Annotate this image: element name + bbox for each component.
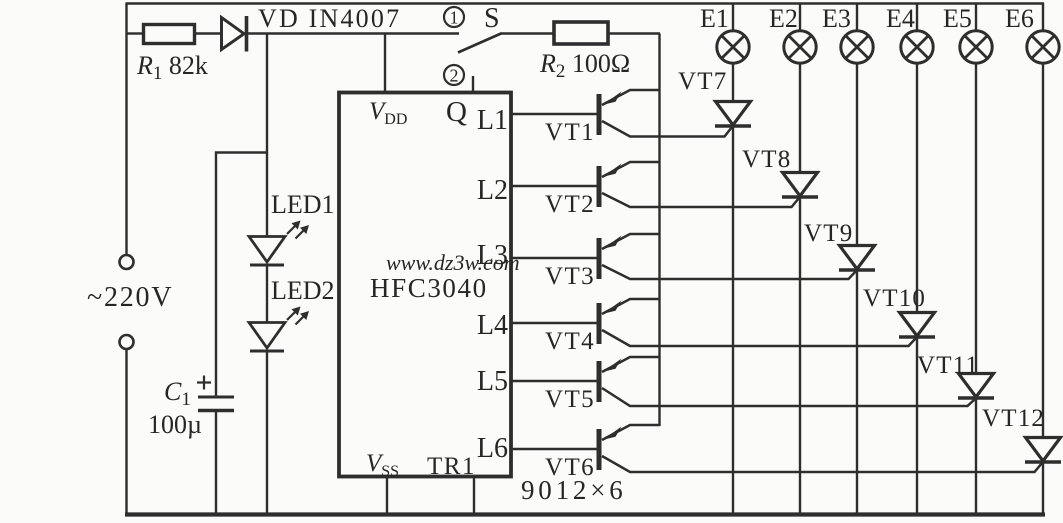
svg-text:VT10: VT10 [863, 285, 926, 312]
svg-text:2: 2 [450, 66, 459, 86]
wire thyristor VT11 cathode to bottom rail [975, 398, 977, 516]
svg-text:Q: Q [446, 96, 467, 128]
wire switch to R2 [500, 32, 553, 34]
IC pin L1 wire [511, 113, 597, 115]
transistor VT1 collector to VT7 gate [602, 121, 732, 137]
svg-text:www.dz3w.com: www.dz3w.com [386, 250, 520, 275]
resistor R1 [144, 25, 195, 44]
svg-text:L6: L6 [477, 433, 508, 464]
switch S contact 2 marker [444, 65, 464, 85]
transistor VT4 emitter [602, 299, 660, 314]
svg-text:VT11: VT11 [917, 352, 979, 379]
switch S contact 1 marker [444, 7, 464, 27]
wire emitter supply bus [658, 34, 660, 427]
transistor VT2 emitter [602, 162, 660, 177]
terminal lower ~220V [120, 335, 134, 349]
svg-text:VT8: VT8 [742, 146, 791, 173]
thyristor VT11 triangle [959, 374, 994, 398]
svg-text:L1: L1 [477, 105, 508, 136]
lamp E4 [916, 3, 918, 31]
wire thyristor VT7 cathode to bottom rail [732, 126, 734, 516]
wire R2 to emitter bus [609, 32, 660, 34]
wire R1 to VD [196, 32, 222, 34]
svg-text:L2: L2 [477, 175, 508, 206]
IC U1 HFC3040 body [339, 93, 511, 477]
wire lamp E5 to thyristor VT11 anode [975, 63, 977, 374]
wire thyristor VT8 cathode to bottom rail [799, 197, 801, 516]
transistor VT6 base bar [597, 429, 602, 470]
thyristor VT7 cathode bar [715, 124, 751, 127]
svg-text:~220V: ~220V [87, 282, 173, 313]
wire LED1 to LED2 [266, 265, 268, 323]
transistor VT6 collector to VT12 gate [602, 456, 1042, 472]
transistor VT4 base bar [597, 303, 602, 344]
lamp E3 [856, 3, 858, 31]
transistor VT1 base bar [597, 94, 602, 135]
wire top supply rail [126, 2, 1044, 5]
wire bottom return rail [125, 512, 1045, 516]
wire thyristor VT9 cathode to bottom rail [856, 270, 858, 516]
lamp E1 [732, 3, 734, 31]
wire VD to switch S [247, 32, 459, 34]
thyristor VT11 cathode bar [958, 396, 994, 399]
thyristor VT10 cathode bar [899, 335, 935, 338]
resistor R2 [554, 22, 608, 44]
svg-text:L5: L5 [477, 366, 508, 397]
transistor VT3 base bar [597, 238, 602, 279]
wire TR1 to bottom rail [473, 477, 475, 515]
svg-text:VT7: VT7 [678, 68, 727, 95]
diode VD cathode bar [245, 16, 249, 52]
wire C1 to bottom rail [215, 411, 217, 516]
capacitor C1 plus sign [197, 376, 211, 390]
thyristor VT8 triangle [783, 173, 818, 197]
LED LED2 [249, 323, 285, 349]
transistor VT3 emitter [602, 234, 660, 249]
svg-text:VT9: VT9 [804, 220, 853, 247]
transistor VT2 collector to VT8 gate [602, 193, 799, 207]
thyristor VT7 triangle [716, 102, 751, 126]
LED LED1 [249, 237, 285, 263]
svg-text:VD IN4007: VD IN4007 [258, 4, 401, 33]
lamp E2 [799, 3, 801, 31]
thyristor VT8 cathode bar [782, 195, 818, 198]
wire lamp E6 to thyristor VT12 anode [1042, 63, 1044, 438]
svg-text:E4: E4 [886, 4, 915, 33]
lamp E5 [975, 3, 977, 31]
svg-text:9012×6: 9012×6 [521, 475, 627, 505]
svg-text:VT5: VT5 [545, 386, 595, 413]
capacitor C1 bottom plate [198, 409, 234, 412]
svg-text:VT2: VT2 [545, 191, 595, 218]
diode VD anode triangle [222, 18, 245, 50]
wire lamp E2 to thyristor VT8 anode [799, 63, 801, 173]
wire thyristor VT12 cathode to bottom rail [1042, 462, 1044, 516]
svg-text:R2 100Ω: R2 100Ω [539, 49, 630, 82]
transistor VT5 collector to VT11 gate [602, 388, 975, 406]
svg-text:VT4: VT4 [545, 328, 595, 355]
wire mains to R1 [126, 32, 142, 34]
wire left border lower [125, 349, 127, 516]
thyristor VT12 cathode bar [1025, 460, 1061, 463]
svg-text:E3: E3 [822, 4, 851, 33]
wire thyristor VT10 cathode to bottom rail [916, 337, 918, 516]
switch S contact 2 stub [472, 76, 474, 92]
thyristor VT9 triangle [840, 246, 875, 270]
wire branch link to C1 [216, 153, 267, 397]
wire lamp E4 to thyristor VT10 anode [916, 63, 918, 313]
IC pin L5 wire [511, 380, 597, 382]
svg-text:HFC3040: HFC3040 [370, 273, 488, 303]
svg-text:R1 82k: R1 82k [136, 51, 208, 84]
lamp E6 [1042, 3, 1044, 31]
svg-text:100µ: 100µ [148, 410, 202, 439]
svg-text:VT3: VT3 [545, 263, 595, 290]
wire lamp E3 to thyristor VT9 anode [856, 63, 858, 246]
thyristor VT12 triangle [1026, 438, 1061, 462]
wire lamp E1 to thyristor VT7 anode [732, 63, 734, 102]
transistor VT3 collector to VT9 gate [602, 265, 856, 279]
transistor VT1 emitter [602, 90, 660, 105]
transistor VT5 base bar [597, 361, 602, 402]
svg-text:1: 1 [450, 8, 459, 28]
svg-text:E1: E1 [700, 4, 729, 33]
svg-text:VT1: VT1 [545, 119, 595, 146]
svg-text:LED2: LED2 [271, 276, 335, 305]
svg-text:E2: E2 [769, 4, 798, 33]
transistor VT6 emitter [602, 425, 660, 440]
svg-text:LED1: LED1 [271, 190, 335, 219]
thyristor VT9 cathode bar [839, 268, 875, 271]
transistor VT2 base bar [597, 166, 602, 207]
switch S blade [458, 34, 501, 53]
svg-text:TR1: TR1 [427, 453, 476, 480]
transistor VT5 emitter [602, 357, 660, 372]
IC pin L6 wire [511, 448, 597, 450]
thyristor VT10 triangle [900, 313, 935, 337]
wire LED2 to bottom rail [266, 351, 268, 516]
IC pin L2 wire [511, 185, 597, 187]
terminal upper ~220V [120, 255, 134, 269]
svg-text:L4: L4 [477, 310, 508, 341]
wire node to LED branch [266, 34, 268, 238]
svg-text:S: S [484, 3, 500, 34]
wire left border upper [125, 3, 127, 256]
wire VDD supply drop [384, 34, 386, 93]
IC pin L3 wire [511, 257, 597, 259]
IC pin L4 wire [511, 322, 597, 324]
svg-text:E5: E5 [943, 4, 972, 33]
transistor VT4 collector to VT10 gate [602, 330, 916, 346]
svg-text:VT12: VT12 [982, 405, 1045, 432]
capacitor C1 top plate [198, 396, 234, 399]
wire VSS to bottom rail [386, 477, 388, 515]
svg-text:E6: E6 [1005, 4, 1034, 33]
